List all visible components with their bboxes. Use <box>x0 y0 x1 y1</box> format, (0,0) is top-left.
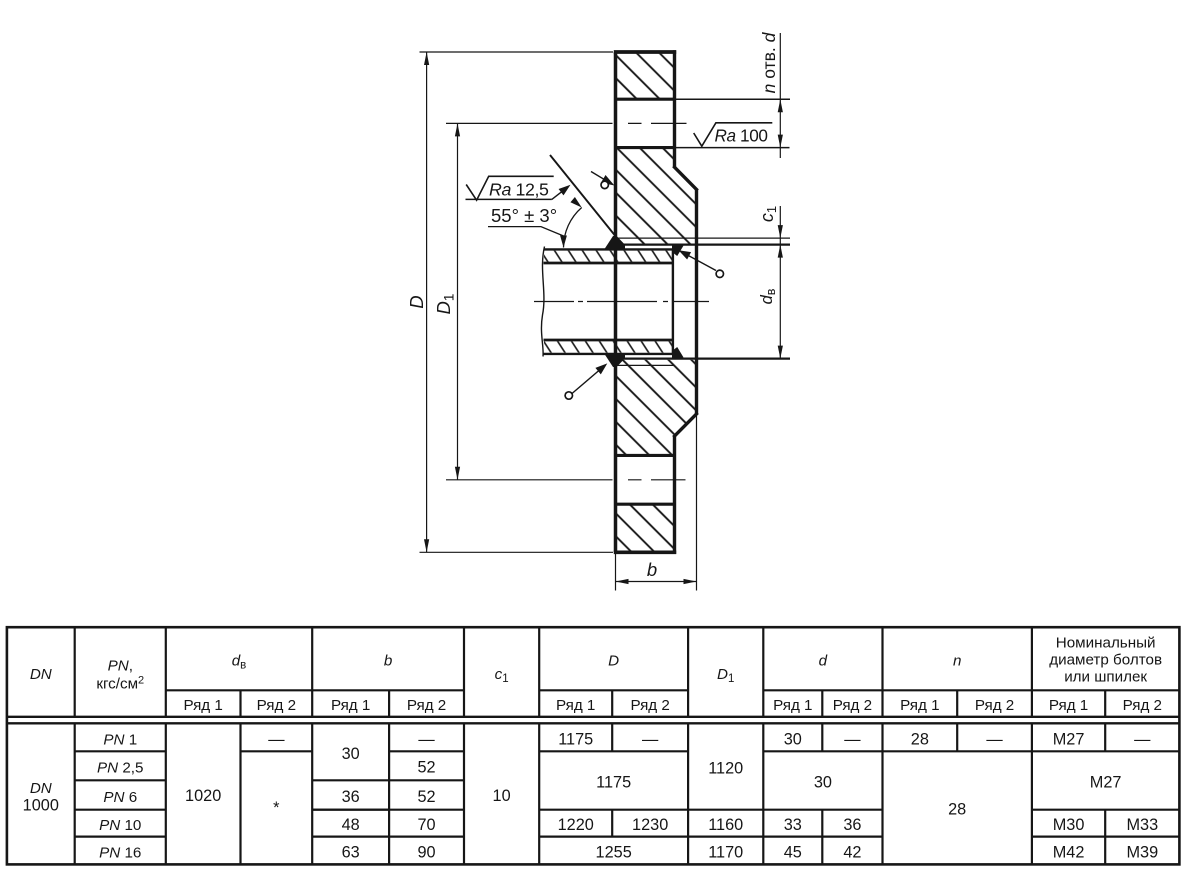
svg-text:52: 52 <box>417 759 435 777</box>
svg-text:d: d <box>819 653 828 670</box>
svg-text:1120: 1120 <box>708 760 743 778</box>
svg-text:или шпилек: или шпилек <box>1064 669 1147 686</box>
svg-text:—: — <box>844 730 861 748</box>
svg-text:Ra 12,5: Ra 12,5 <box>489 179 549 199</box>
svg-text:—: — <box>986 730 1003 748</box>
svg-text:Ряд 1: Ряд 1 <box>900 697 939 714</box>
svg-text:Ряд 1: Ряд 1 <box>556 697 595 714</box>
svg-text:D: D <box>406 295 427 308</box>
svg-text:М39: М39 <box>1126 843 1158 861</box>
svg-text:1255: 1255 <box>596 843 632 861</box>
svg-text:1175: 1175 <box>596 773 631 791</box>
svg-text:Ряд 1: Ряд 1 <box>1049 697 1088 714</box>
svg-text:диаметр болтов: диаметр болтов <box>1049 652 1162 669</box>
svg-text:1000: 1000 <box>23 796 59 814</box>
svg-text:70: 70 <box>417 816 435 834</box>
svg-text:DN: DN <box>30 666 52 683</box>
svg-text:b: b <box>384 653 392 670</box>
svg-text:1230: 1230 <box>632 816 668 834</box>
svg-text:М33: М33 <box>1126 816 1158 834</box>
svg-text:Ряд 1: Ряд 1 <box>183 697 222 714</box>
svg-text:М30: М30 <box>1053 816 1085 834</box>
svg-text:—: — <box>1134 730 1151 748</box>
svg-text:Ряд 1: Ряд 1 <box>773 697 812 714</box>
svg-text:Ряд 2: Ряд 2 <box>630 697 669 714</box>
svg-text:1020: 1020 <box>185 787 221 805</box>
svg-text:PN,: PN, <box>108 658 133 675</box>
svg-text:b: b <box>647 559 657 580</box>
svg-text:30: 30 <box>342 745 360 763</box>
svg-text:—: — <box>418 730 435 748</box>
svg-text:М27: М27 <box>1053 730 1085 748</box>
svg-text:М42: М42 <box>1053 843 1085 861</box>
svg-text:45: 45 <box>784 843 802 861</box>
svg-text:—: — <box>642 730 659 748</box>
svg-text:Ряд 2: Ряд 2 <box>975 697 1014 714</box>
svg-text:10: 10 <box>493 787 511 805</box>
svg-text:кгс/см2: кгс/см2 <box>96 675 144 693</box>
svg-text:*: * <box>273 799 280 817</box>
svg-text:n: n <box>953 653 961 670</box>
svg-text:30: 30 <box>784 730 802 748</box>
svg-text:PN 10: PN 10 <box>99 817 141 834</box>
svg-text:33: 33 <box>784 816 802 834</box>
svg-text:PN 1: PN 1 <box>103 731 137 748</box>
svg-text:36: 36 <box>342 788 360 806</box>
svg-text:28: 28 <box>911 730 929 748</box>
svg-text:Ряд 2: Ряд 2 <box>833 697 872 714</box>
svg-text:Ряд 2: Ряд 2 <box>257 697 296 714</box>
svg-text:1175: 1175 <box>558 730 593 748</box>
svg-text:PN 6: PN 6 <box>103 789 137 806</box>
svg-text:63: 63 <box>342 843 360 861</box>
svg-text:55° ± 3°: 55° ± 3° <box>491 205 557 226</box>
svg-text:42: 42 <box>843 843 861 861</box>
svg-text:Ряд 1: Ряд 1 <box>331 697 370 714</box>
svg-text:Ряд 2: Ряд 2 <box>407 697 446 714</box>
svg-text:D: D <box>608 653 619 670</box>
svg-text:Ряд 2: Ряд 2 <box>1123 697 1162 714</box>
svg-text:30: 30 <box>814 773 832 791</box>
svg-text:n отв. d: n отв. d <box>759 31 779 93</box>
svg-text:36: 36 <box>843 816 861 834</box>
svg-text:DN: DN <box>30 780 52 797</box>
svg-text:1220: 1220 <box>558 816 594 834</box>
svg-text:Ra 100: Ra 100 <box>715 126 768 146</box>
svg-text:PN 16: PN 16 <box>99 844 141 861</box>
svg-text:—: — <box>268 730 285 748</box>
svg-text:PN 2,5: PN 2,5 <box>97 760 143 777</box>
svg-text:М27: М27 <box>1090 773 1122 791</box>
svg-text:52: 52 <box>417 788 435 806</box>
svg-text:90: 90 <box>417 843 435 861</box>
svg-text:48: 48 <box>342 816 360 834</box>
svg-text:Номинальный: Номинальный <box>1056 635 1156 652</box>
svg-text:1170: 1170 <box>708 843 743 861</box>
svg-text:1160: 1160 <box>708 816 743 834</box>
svg-text:28: 28 <box>948 801 966 819</box>
